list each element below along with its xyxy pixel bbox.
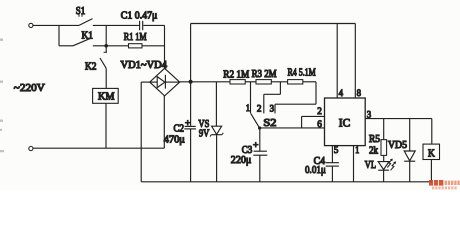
node top AC terminal — [29, 23, 33, 27]
capacitor C3 — [231, 128, 267, 182]
wire — [190, 24, 192, 82]
wire — [33, 24, 79, 26]
wire pin 8 — [354, 24, 356, 99]
capacitor C2 — [164, 82, 196, 182]
svg-text:VD1~VD4: VD1~VD4 — [121, 60, 168, 71]
wire tap 2 — [264, 82, 281, 114]
resistor R2 — [223, 70, 249, 84]
wire top DC rail — [191, 23, 356, 25]
scan specks — [0, 39, 4, 153]
switch S1 — [76, 6, 93, 26]
resistor R1 — [124, 32, 147, 48]
wire — [58, 25, 60, 45]
relay contact K2 — [85, 46, 107, 73]
capacitor C1 — [121, 11, 158, 31]
wire — [163, 96, 165, 148]
svg-text:8: 8 — [357, 89, 362, 99]
wire pin 3 — [365, 119, 432, 145]
svg-text:220μ: 220μ — [231, 155, 252, 166]
wire — [271, 81, 287, 83]
resistor R5 — [369, 119, 387, 162]
capacitor C4 — [305, 146, 339, 182]
svg-text:3: 3 — [270, 105, 275, 115]
selector switch S2 — [251, 114, 277, 130]
wire — [143, 24, 164, 26]
svg-text:IC: IC — [339, 118, 351, 130]
wire tap 1 — [250, 82, 252, 114]
svg-text:C1 0.47μ: C1 0.47μ — [121, 11, 158, 22]
svg-text:1: 1 — [355, 146, 359, 156]
LED VL — [365, 159, 396, 182]
resistor R3 — [252, 69, 277, 84]
svg-text:+: + — [253, 140, 258, 150]
wire — [59, 45, 73, 47]
svg-text:470μ: 470μ — [164, 135, 185, 146]
zener diode VS — [198, 82, 223, 182]
node bottom AC terminal — [29, 146, 33, 150]
svg-text:R5: R5 — [369, 134, 380, 145]
svg-text:4: 4 — [339, 89, 344, 99]
svg-text:KM: KM — [98, 92, 115, 103]
svg-text:R3 2M: R3 2M — [252, 69, 277, 80]
watermark logo — [429, 180, 460, 189]
wire — [93, 24, 139, 26]
diode VD5 — [388, 119, 415, 182]
node junction K1-R1 — [104, 44, 108, 48]
wire ground rail — [141, 181, 432, 183]
svg-text:2k: 2k — [369, 146, 378, 157]
svg-text:VL: VL — [365, 160, 376, 171]
svg-text:6: 6 — [317, 120, 322, 130]
svg-text:K1: K1 — [82, 30, 94, 41]
svg-text:5: 5 — [334, 146, 339, 156]
wire — [105, 103, 107, 148]
svg-text:S1: S1 — [76, 6, 86, 17]
svg-text:C2: C2 — [174, 123, 185, 134]
svg-text:R2 1M: R2 1M — [223, 70, 249, 81]
svg-text:VD5: VD5 — [388, 140, 407, 151]
resistor R4 — [288, 68, 316, 84]
wire — [245, 81, 256, 83]
relay contact K1 — [73, 30, 93, 46]
svg-text:+: + — [185, 118, 190, 128]
wire — [164, 25, 166, 68]
svg-text:0.01μ: 0.01μ — [305, 165, 326, 176]
svg-text:K: K — [428, 149, 436, 160]
svg-text:K2: K2 — [85, 61, 97, 72]
wire — [33, 147, 164, 149]
wire tap 3 — [275, 82, 316, 114]
wire pin 6 — [260, 127, 325, 129]
node junction C2 — [189, 80, 193, 84]
svg-text:1: 1 — [246, 104, 250, 114]
wire — [93, 45, 106, 47]
svg-text:2: 2 — [317, 107, 322, 117]
bridge rectifier VD1~VD4 — [121, 60, 180, 96]
wire pin 4 — [336, 24, 338, 99]
relay K — [423, 144, 440, 182]
svg-text:2: 2 — [257, 105, 262, 115]
wire — [141, 81, 150, 83]
wire pin 1 — [353, 146, 355, 182]
node junction S2 wiper — [258, 126, 261, 129]
svg-text:R4 5.1M: R4 5.1M — [288, 68, 316, 79]
op-amp timer IC — [325, 98, 366, 146]
wire — [140, 82, 142, 182]
wire — [105, 68, 107, 88]
wire pin 2 — [302, 116, 325, 128]
wire — [105, 25, 107, 45]
contactor coil KM — [93, 88, 119, 103]
svg-text:R1 1M: R1 1M — [124, 32, 147, 43]
svg-text:9V: 9V — [199, 128, 210, 139]
wire — [303, 81, 316, 83]
wire — [106, 45, 128, 47]
svg-text:~220V: ~220V — [14, 83, 45, 94]
wire — [142, 45, 165, 47]
wire +9V rail — [180, 81, 230, 83]
